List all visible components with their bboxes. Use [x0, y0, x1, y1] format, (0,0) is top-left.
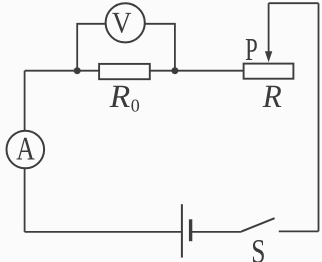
- svg-text:S: S: [251, 234, 265, 262]
- svg-text:R: R: [109, 79, 131, 115]
- svg-text:A: A: [16, 131, 35, 167]
- svg-text:P: P: [245, 31, 258, 67]
- svg-text:V: V: [112, 6, 132, 39]
- svg-text:0: 0: [131, 96, 140, 116]
- svg-text:R: R: [262, 79, 282, 115]
